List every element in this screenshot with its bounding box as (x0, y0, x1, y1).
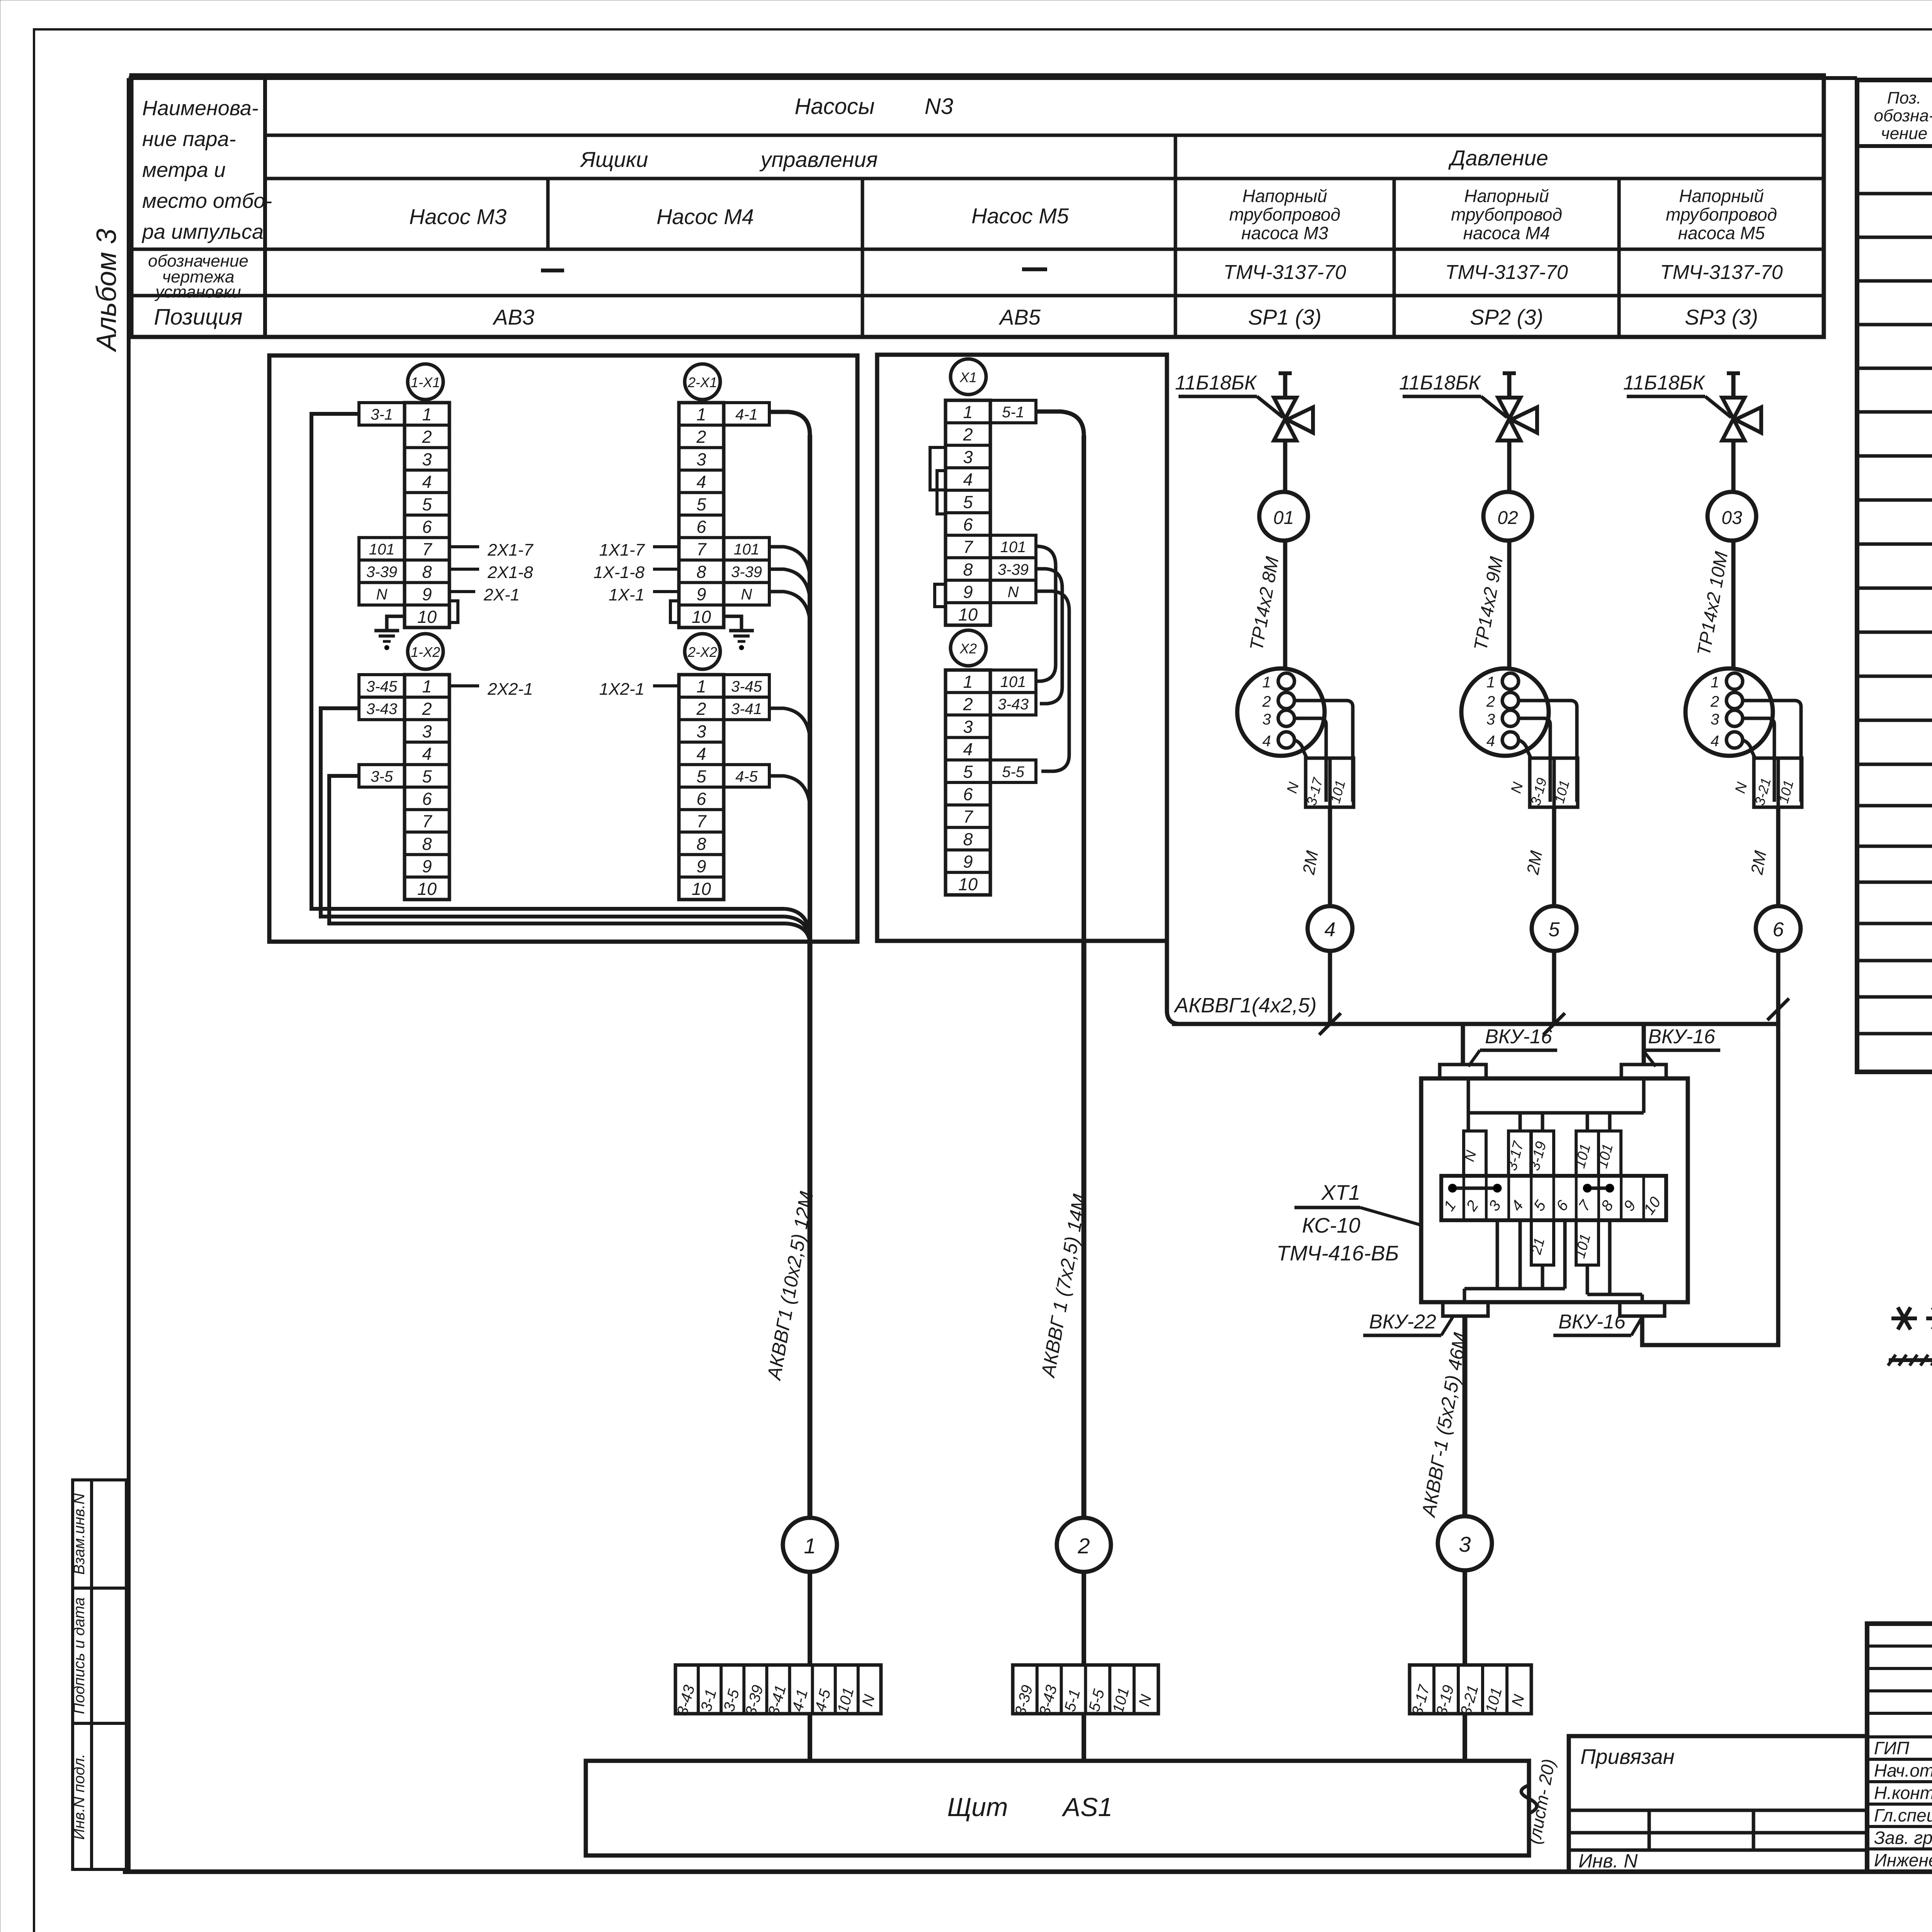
svg-text:4: 4 (696, 472, 706, 492)
svg-text:3: 3 (422, 721, 432, 741)
svg-text:101: 101 (369, 541, 395, 558)
junction box circle branch 1 (1237, 668, 1325, 756)
svg-text:5-1: 5-1 (1002, 404, 1024, 421)
svg-text:1Х-1-8: 1Х-1-8 (594, 563, 645, 582)
svg-text:АВ5: АВ5 (998, 305, 1041, 329)
parts list table grid (1857, 80, 1932, 1072)
svg-text:8: 8 (963, 560, 973, 579)
svg-text:Взам.инв.N: Взам.инв.N (71, 1493, 88, 1575)
svg-text:2: 2 (963, 694, 973, 714)
svg-text:6: 6 (422, 789, 432, 809)
svg-text:Насосы: Насосы (794, 94, 874, 119)
XT1 interior outgoing wires (1496, 1220, 1499, 1289)
panel tag strip for cable 3 (1410, 1665, 1531, 1714)
wire 4-1 from 2-X1 down to cable 1 (770, 412, 810, 435)
svg-text:9: 9 (696, 585, 706, 604)
svg-text:2: 2 (1262, 693, 1271, 710)
svg-text:Насос М4: Насос М4 (656, 204, 754, 229)
svg-text:3: 3 (696, 449, 706, 469)
svg-text:01: 01 (1273, 508, 1294, 528)
junction box circle branch 2 (1461, 668, 1549, 756)
svg-text:7: 7 (422, 539, 432, 559)
horizontal cable АКВВГ1(4х2,5) (1172, 1022, 1778, 1026)
strip 2-X1 cell10 side stub (670, 601, 679, 622)
terminal strip 1-Х2 cells (405, 675, 449, 900)
three-way valve 11Б18БК branch 3 stem (1731, 373, 1736, 399)
svg-text:Насос М5: Насос М5 (971, 204, 1069, 228)
svg-text:1Х2-1: 1Х2-1 (599, 680, 645, 699)
svg-text:9: 9 (963, 852, 973, 872)
svg-text:3-1: 3-1 (371, 406, 393, 423)
junction tag box branch 1 (1306, 758, 1354, 807)
branch 2 lower cable with 2М label (1552, 807, 1556, 906)
three-way valve branch 1 body (1274, 398, 1296, 419)
svg-text:8: 8 (696, 562, 706, 582)
svg-text:ВКУ-16: ВКУ-16 (1558, 1311, 1626, 1333)
svg-text:Гл.спец.: Гл.спец. (1874, 1805, 1932, 1825)
svg-text:АS1: АS1 (1061, 1793, 1113, 1822)
wire 5-1 from X1 down to cable 2 (1037, 412, 1084, 435)
line circle 6 branch 3 (1756, 906, 1801, 951)
svg-text:4: 4 (696, 744, 706, 764)
XT1 strip jumper 1-3 (1452, 1187, 1497, 1190)
svg-text:управления: управления (759, 147, 878, 172)
panel tag strip for cable 2 (1013, 1665, 1158, 1714)
svg-text:1: 1 (696, 405, 706, 424)
svg-text:5: 5 (1549, 918, 1560, 941)
wire 3-1 from 1-X1 to cable bundle (311, 414, 784, 909)
branch 3 lower cable with 2М label (1776, 807, 1781, 906)
svg-text:11Б18БК: 11Б18БК (1175, 372, 1258, 394)
pressure sensor 03 branch 3 (1731, 440, 1736, 492)
svg-text:АКВВГ1(4х2,5): АКВВГ1(4х2,5) (1173, 994, 1316, 1017)
svg-text:SP2 (3): SP2 (3) (1470, 305, 1543, 329)
panel break mark and лист-20 note (1521, 1774, 1537, 1825)
svg-text:ТМЧ-416-ВБ: ТМЧ-416-ВБ (1277, 1241, 1399, 1265)
svg-text:4: 4 (1262, 733, 1271, 750)
left junction box outline (269, 355, 857, 942)
terminal strip 1-Х2 designator circle (408, 634, 443, 669)
svg-text:ра импульса: ра импульса (141, 220, 264, 243)
XT1 strip jumper 7-8 (1587, 1187, 1610, 1190)
svg-text:9: 9 (963, 582, 973, 602)
junction box branch 2 terminal wires (1519, 701, 1577, 802)
XT1 top-left bushing ВКУ-16 (1440, 1065, 1486, 1078)
svg-text:2: 2 (696, 427, 706, 447)
svg-text:3-39: 3-39 (998, 561, 1029, 578)
legend asterisks домаркировать (1891, 1316, 1917, 1320)
wire 4-5 2-X2 joining bundle (770, 776, 810, 805)
svg-text:4-1: 4-1 (735, 406, 758, 423)
cable 2 bundle vertical in right box (1082, 435, 1086, 941)
terminal strip Х2 right tag boxes (990, 670, 1036, 692)
svg-text:7: 7 (963, 807, 973, 827)
right box right edge drop to horizontal cable (1167, 941, 1179, 1024)
svg-text:10: 10 (417, 879, 437, 899)
svg-text:4: 4 (1325, 918, 1336, 941)
svg-text:5: 5 (696, 495, 706, 514)
strip 2-X1 left leader labels (653, 545, 679, 548)
svg-text:ГИП: ГИП (1874, 1738, 1910, 1758)
svg-text:N: N (1008, 584, 1019, 601)
svg-text:Альбом 3: Альбом 3 (91, 229, 122, 352)
svg-text:N: N (376, 586, 388, 603)
svg-text:2-Х1: 2-Х1 (687, 374, 717, 390)
svg-text:ТМЧ-3137-70: ТМЧ-3137-70 (1223, 261, 1346, 284)
svg-text:Напорный: Напорный (1679, 186, 1764, 206)
XT1 bottom-left bushing ВКУ-22 (1443, 1302, 1488, 1316)
pull circle 3 (1438, 1516, 1492, 1570)
title block left extension Привязан (1569, 1736, 1867, 1872)
svg-text:ВКУ-16: ВКУ-16 (1648, 1026, 1715, 1048)
junction tag box branch 2 (1530, 758, 1578, 807)
terminal strip Х1 right tag boxes (990, 400, 1036, 423)
cable junction slashes (1319, 1013, 1341, 1035)
svg-text:1: 1 (804, 1534, 816, 1558)
junction tag box branch 3 (1754, 758, 1802, 807)
svg-text:3-41: 3-41 (731, 701, 762, 718)
cable 3 АКВВГ-1(5х2,5) 46М down to panel (1463, 1316, 1468, 1516)
svg-text:трубопровод: трубопровод (1229, 204, 1340, 224)
svg-text:ВКУ-22: ВКУ-22 (1369, 1311, 1436, 1333)
svg-text:3: 3 (1459, 1532, 1471, 1556)
svg-text:1: 1 (422, 677, 432, 696)
svg-text:трубопровод: трубопровод (1666, 204, 1777, 224)
svg-text:9: 9 (422, 585, 432, 604)
branch 3 continuation to bottom bushing (1642, 1024, 1778, 1345)
svg-text:Инв.N подл.: Инв.N подл. (71, 1754, 88, 1840)
legend hatch демонтировать (1889, 1358, 1932, 1362)
drawing frame top edge (129, 76, 1857, 80)
svg-text:10: 10 (417, 607, 437, 627)
svg-text:2: 2 (422, 427, 432, 447)
svg-text:1: 1 (1711, 674, 1719, 691)
wire 3-43 from 1-X2 to cable bundle (321, 708, 784, 917)
svg-text:8: 8 (696, 834, 706, 854)
XT1 top tag boxes (1464, 1131, 1486, 1176)
pull circle 1 (783, 1518, 837, 1572)
svg-text:Инв. N: Инв. N (1578, 1850, 1638, 1872)
drop to XT1 top-left bushing (1461, 1024, 1465, 1065)
terminal strip 2-Х1 designator circle (685, 364, 720, 400)
svg-text:трубопровод: трубопровод (1451, 204, 1562, 224)
svg-text:101: 101 (1000, 673, 1026, 690)
svg-text:3: 3 (963, 447, 973, 467)
обозначение row values (541, 269, 564, 272)
svg-text:ХТ1: ХТ1 (1321, 1180, 1361, 1204)
three-way valve 11Б18БК branch 1 stem (1283, 373, 1287, 399)
terminal strip 1-Х2 left tag boxes (359, 675, 405, 697)
svg-text:1: 1 (1262, 674, 1271, 691)
svg-text:1Х-1: 1Х-1 (609, 585, 645, 604)
svg-text:3: 3 (1486, 711, 1495, 728)
svg-text:02: 02 (1497, 508, 1518, 528)
svg-text:Напорный: Напорный (1242, 186, 1327, 206)
svg-text:3-5: 3-5 (371, 768, 393, 785)
svg-text:10: 10 (958, 874, 978, 894)
right junction box outline (877, 355, 1167, 941)
svg-text:2Х1-7: 2Х1-7 (487, 541, 534, 560)
left margin stamp boxes (73, 1480, 126, 1588)
svg-text:11Б18БК: 11Б18БК (1623, 372, 1706, 394)
strip 1-X1 cell10 side stub (449, 601, 458, 622)
panel box Щит АS1 (586, 1761, 1529, 1855)
svg-text:чение: чение (1881, 124, 1927, 143)
drawing frame bottom edge (123, 1869, 1932, 1874)
svg-text:SP1 (3): SP1 (3) (1248, 305, 1321, 329)
svg-text:метра и: метра и (142, 158, 226, 182)
svg-text:Зав. гр.: Зав. гр. (1874, 1828, 1932, 1848)
svg-text:101: 101 (1000, 539, 1026, 556)
junction box circle branch 3 (1685, 668, 1773, 756)
drop to XT1 top-right bushing (1642, 1024, 1646, 1065)
three-way valve branch 3 body (1722, 398, 1745, 419)
terminal strip 1-Х1 designator circle (408, 364, 443, 400)
title block outline (1867, 1624, 1932, 1872)
XT1 box outline (1421, 1078, 1688, 1302)
svg-text:3: 3 (696, 721, 706, 741)
svg-text:Щит: Щит (947, 1793, 1008, 1822)
junction box branch 3 terminal wires (1743, 701, 1801, 802)
wire N X1 to 5-5 X2 (1037, 591, 1069, 771)
wire 3-5 from 1-X2 to cable bundle (329, 776, 786, 923)
svg-text:Позиция: Позиция (154, 304, 242, 330)
panel tag strip for cable 1 (675, 1665, 881, 1714)
svg-text:ТМЧ-3137-70: ТМЧ-3137-70 (1445, 261, 1568, 284)
wire 101 2-X1 joining bundle (770, 547, 810, 576)
svg-text:6: 6 (696, 517, 706, 537)
svg-text:6: 6 (1773, 918, 1784, 941)
svg-text:3: 3 (1262, 711, 1271, 728)
terminal strip Х1 designator circle (951, 359, 986, 395)
terminal strip 2-Х1 right tag boxes (724, 403, 769, 425)
impulse line branch 1 with label ТР14х2 8М (1283, 541, 1287, 669)
svg-text:обозна-: обозна- (1874, 106, 1932, 125)
svg-text:Подпись и дата: Подпись и дата (71, 1597, 88, 1714)
svg-text:7: 7 (422, 811, 432, 831)
top parameter table grid (131, 75, 1824, 337)
svg-text:3-45: 3-45 (731, 678, 762, 695)
cable 2 АКВВГ 1(7х2,5) 14М down to panel (1082, 941, 1087, 1518)
drawing frame left edge (127, 78, 131, 1872)
svg-text:Ящики: Ящики (580, 147, 648, 172)
svg-text:7: 7 (963, 537, 973, 557)
svg-text:1-Х1: 1-Х1 (411, 374, 440, 390)
svg-text:7: 7 (696, 811, 707, 831)
terminal strip Х2 cells (946, 670, 990, 895)
svg-text:2: 2 (1077, 1534, 1090, 1558)
three-way valve 11Б18БК branch 2 stem (1507, 373, 1512, 399)
wire N 2-X1 joining bundle (770, 592, 810, 621)
svg-text:ние пара-: ние пара- (142, 128, 236, 151)
svg-text:5-5: 5-5 (1002, 764, 1025, 781)
svg-text:2: 2 (1486, 693, 1495, 710)
terminal strip 2-Х2 cells (679, 675, 724, 900)
svg-text:2: 2 (696, 699, 706, 719)
svg-text:4-5: 4-5 (735, 768, 758, 785)
svg-text:10: 10 (692, 879, 711, 899)
svg-text:насоса М5: насоса М5 (1678, 223, 1765, 243)
svg-text:4: 4 (1711, 733, 1719, 750)
terminal strip 2-Х2 right tag boxes (724, 675, 769, 697)
svg-text:Насос М3: Насос М3 (409, 204, 507, 229)
svg-text:6: 6 (963, 784, 973, 804)
svg-text:ТМЧ-3137-70: ТМЧ-3137-70 (1660, 261, 1783, 284)
svg-text:N3: N3 (925, 94, 953, 119)
strip 1-X2 right leader label 2X2-1 (449, 684, 479, 687)
svg-text:1: 1 (963, 402, 973, 422)
svg-text:101: 101 (734, 541, 760, 558)
svg-text:1-Х2: 1-Х2 (411, 644, 440, 660)
svg-text:6: 6 (963, 515, 973, 534)
svg-text:SP3 (3): SP3 (3) (1685, 305, 1758, 329)
svg-text:3-45: 3-45 (366, 678, 398, 695)
terminal strip 1-Х1 left tag boxes (359, 403, 405, 425)
XT1 top-right bushing ВКУ-16 (1621, 1065, 1666, 1078)
svg-text:4: 4 (422, 744, 432, 764)
strip 1-X1 ground symbol (387, 616, 405, 631)
impulse line branch 3 with label ТР14х2 10М (1731, 541, 1736, 669)
svg-text:2Х2-1: 2Х2-1 (487, 680, 533, 699)
svg-text:3: 3 (1711, 711, 1719, 728)
XT1 terminal strip (1441, 1176, 1666, 1220)
svg-text:5: 5 (422, 495, 432, 514)
svg-text:7: 7 (696, 539, 707, 559)
wire 3-41 2-X2 joining bundle (770, 708, 810, 737)
svg-text:насоса М4: насоса М4 (1463, 223, 1550, 243)
svg-text:5: 5 (963, 492, 973, 512)
strip X1 left jumper brackets (930, 447, 946, 490)
svg-text:Напорный: Напорный (1464, 186, 1549, 206)
pressure sensor 02 branch 2 (1507, 440, 1512, 492)
svg-text:5: 5 (696, 767, 706, 786)
pressure sensor 01 branch 1 (1283, 440, 1287, 492)
svg-text:2: 2 (422, 699, 432, 719)
svg-text:1: 1 (422, 405, 432, 424)
svg-text:5: 5 (963, 762, 973, 782)
wire 101 X1 to 101 X2 (1037, 546, 1056, 681)
XT1 bottom-right bushing ВКУ-16 (1620, 1302, 1665, 1316)
svg-text:2Х-1: 2Х-1 (483, 585, 520, 604)
svg-text:2-Х2: 2-Х2 (687, 644, 717, 660)
pull circle 2 (1057, 1518, 1111, 1572)
svg-text:ВКУ-16: ВКУ-16 (1485, 1026, 1552, 1048)
svg-text:4: 4 (963, 740, 973, 759)
svg-text:1: 1 (1486, 674, 1495, 691)
svg-text:2Х1-8: 2Х1-8 (487, 563, 533, 582)
svg-text:3: 3 (963, 717, 973, 736)
strip 1-X1 right leader labels (449, 545, 479, 548)
terminal strip 1-Х1 cells (405, 403, 449, 628)
svg-text:4: 4 (963, 470, 973, 490)
svg-text:1Х1-7: 1Х1-7 (599, 541, 645, 560)
svg-text:N: N (741, 586, 752, 603)
terminal strip Х2 designator circle (951, 630, 986, 666)
impulse line branch 2 with label ТР14х2 9М (1507, 541, 1512, 669)
svg-text:8: 8 (963, 829, 973, 849)
svg-text:3-43: 3-43 (366, 701, 397, 718)
terminal strip Х1 cells (946, 400, 990, 625)
svg-text:место отбо-: место отбо- (142, 189, 272, 213)
svg-text:8: 8 (422, 834, 432, 854)
svg-text:насоса М3: насоса М3 (1242, 223, 1328, 243)
line circle 4 branch 1 (1308, 906, 1352, 951)
junction box branch 1 terminal wires (1294, 701, 1353, 802)
branch 1 lower cable with 2М label (1328, 807, 1332, 906)
svg-text:10: 10 (692, 607, 711, 627)
svg-text:3: 3 (422, 449, 432, 469)
svg-text:Наименова-: Наименова- (142, 97, 259, 120)
svg-text:КС-10: КС-10 (1302, 1213, 1360, 1237)
svg-text:2: 2 (1710, 693, 1719, 710)
title block thin rows (1867, 1645, 1932, 1648)
svg-text:4: 4 (422, 472, 432, 492)
svg-text:Н.контр.: Н.контр. (1874, 1783, 1932, 1803)
cable 1 bundle vertical in left box (808, 435, 812, 942)
three-way valve branch 2 body (1498, 398, 1520, 419)
strip 2-X2 left leader label 1X2-1 (653, 684, 679, 687)
cable 1 АКВВГ1(10х2,5) 12М down to panel (808, 942, 813, 1518)
svg-text:Х1: Х1 (959, 369, 977, 385)
svg-text:4: 4 (1486, 733, 1495, 750)
strip 2-X1 ground symbol (724, 616, 742, 631)
wire 3-39 2-X1 joining bundle (770, 569, 810, 598)
svg-text:Х2: Х2 (959, 641, 977, 656)
svg-text:2: 2 (963, 425, 973, 444)
svg-text:6: 6 (422, 517, 432, 537)
XT1 bottom tag boxes (1531, 1220, 1554, 1265)
svg-text:3-39: 3-39 (366, 563, 397, 580)
svg-text:Нач.отд.: Нач.отд. (1874, 1760, 1932, 1781)
svg-text:Поз.: Поз. (1887, 88, 1922, 107)
svg-text:9: 9 (696, 857, 706, 876)
XT1 interior feed wires (1467, 1078, 1470, 1131)
svg-text:установки: установки (154, 282, 241, 301)
svg-text:9: 9 (422, 857, 432, 876)
svg-text:8: 8 (422, 562, 432, 582)
svg-text:11Б18БК: 11Б18БК (1399, 372, 1482, 394)
svg-text:Инженер: Инженер (1874, 1850, 1932, 1870)
svg-text:Давление: Давление (1448, 146, 1548, 170)
svg-text:3-39: 3-39 (731, 563, 762, 580)
svg-text:1: 1 (963, 672, 973, 692)
svg-text:03: 03 (1721, 508, 1742, 528)
svg-text:1: 1 (696, 677, 706, 696)
wire 3-39 X1 to 3-43 X2 (1037, 569, 1062, 704)
svg-text:6: 6 (696, 789, 706, 809)
line circle 5 branch 2 (1532, 906, 1577, 951)
terminal strip 2-Х2 designator circle (685, 634, 720, 669)
terminal strip 2-Х1 cells (679, 403, 724, 628)
svg-text:5: 5 (422, 767, 432, 786)
svg-text:Привязан: Привязан (1580, 1745, 1675, 1769)
svg-text:АВ3: АВ3 (492, 305, 534, 329)
svg-text:3-43: 3-43 (998, 696, 1029, 713)
svg-text:10: 10 (958, 605, 978, 624)
